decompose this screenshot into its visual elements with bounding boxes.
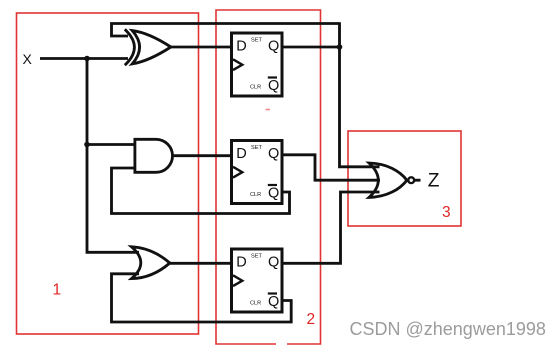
label 1 (53, 282, 62, 299)
U2 pin Q (268, 146, 279, 162)
svg-text:SET: SET (251, 254, 262, 260)
wire OR bottom input feedback (112, 274, 292, 322)
node A junction (337, 44, 343, 50)
U3 pin CLR (250, 301, 261, 307)
svg-text:Z: Z (428, 171, 440, 192)
U1 pin D (236, 38, 246, 54)
xor gate G1 (125, 29, 171, 65)
U2 pin CLR (250, 192, 261, 198)
wire FF3 Q output to NOR bottom input (281, 192, 380, 263)
nor gate G4 (369, 163, 414, 197)
wire X branch vertical to OR gate (87, 59, 139, 253)
U1 pin Q (268, 38, 279, 54)
svg-text:CLR: CLR (250, 85, 261, 91)
svg-text:D: D (236, 38, 246, 54)
svg-text:CLR: CLR (250, 192, 261, 198)
svg-text:X: X (23, 51, 33, 67)
node junction X/XOR (84, 56, 90, 62)
input label X (23, 51, 33, 67)
flip-flop U1 (232, 33, 283, 96)
svg-text:2: 2 (307, 311, 316, 328)
output label Z (428, 171, 440, 192)
svg-text:D: D (236, 254, 246, 270)
svg-text:Q: Q (268, 38, 279, 54)
U2 pin Qbar (268, 185, 279, 202)
region box 2 (216, 10, 321, 344)
U3 pin D (236, 254, 246, 270)
wire AND bottom input feedback (112, 168, 290, 214)
wire FF1 Q output to node A (282, 46, 341, 49)
red artifact dash (266, 109, 271, 111)
label 3 (442, 204, 451, 221)
wire OR output to FF3 D (170, 262, 232, 265)
U2 pin D (236, 146, 246, 162)
svg-text:D: D (236, 146, 246, 162)
U1 pin CLR (250, 85, 261, 91)
svg-text:Q: Q (268, 146, 279, 162)
region box 3 (348, 131, 461, 226)
svg-text:Q: Q (268, 78, 279, 94)
flip-flop U2 (232, 141, 283, 204)
wire feedback from Q1 node to XOR top input (112, 24, 340, 37)
U1 clock input triangle (233, 59, 242, 70)
wire branch to AND top input (87, 143, 135, 146)
node junction X/AND (84, 142, 90, 148)
svg-text:Q: Q (268, 186, 279, 202)
wire node A vertical to NOR top input (340, 22, 380, 167)
svg-text:CSDN @zhengwen1998: CSDN @zhengwen1998 (350, 319, 546, 339)
wire NOR output to Z (415, 179, 421, 182)
svg-text:CLR: CLR (250, 301, 261, 307)
wire AND output to FF2 D (173, 154, 232, 157)
U1 pin SET (251, 38, 262, 44)
U2 clock input triangle (233, 167, 242, 178)
U3 clock input triangle (233, 275, 242, 286)
wire FF2 Q output to NOR middle input (282, 155, 380, 180)
svg-text:3: 3 (442, 204, 451, 221)
svg-text:Q: Q (268, 294, 279, 310)
watermark CSDN (350, 319, 546, 339)
region box 1 (17, 13, 199, 334)
svg-text:SET: SET (251, 145, 262, 151)
label 2 (307, 311, 316, 328)
U3 pin SET (251, 254, 262, 260)
U1 pin Qbar (268, 78, 279, 95)
svg-text:1: 1 (53, 282, 62, 299)
and gate G2 (135, 139, 173, 172)
wire X input to XOR (40, 57, 128, 60)
or gate G3 (132, 247, 170, 279)
U2 pin SET (251, 145, 262, 151)
flip-flop U3 (232, 249, 283, 312)
U3 pin Qbar (268, 294, 279, 311)
U3 pin Q (268, 254, 279, 270)
svg-text:Q: Q (268, 254, 279, 270)
svg-text:SET: SET (251, 38, 262, 44)
wire XOR output to FF1 D (171, 46, 232, 49)
